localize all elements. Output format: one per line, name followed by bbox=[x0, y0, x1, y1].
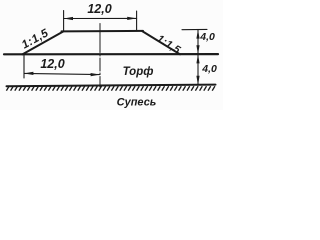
top dimension line bbox=[64, 17, 137, 19]
arrow right of top dimension bbox=[127, 17, 136, 20]
hatch ground surface line bbox=[7, 85, 216, 87]
arrow up of lower 4,0 dimension bbox=[196, 54, 199, 63]
svg-text:12,0: 12,0 bbox=[40, 57, 64, 71]
svg-text:1:1,5: 1:1,5 bbox=[155, 33, 183, 57]
svg-text:Торф: Торф bbox=[123, 66, 154, 78]
bottom dimension line bbox=[24, 73, 100, 74]
arrow left of bottom dimension bbox=[24, 72, 33, 75]
arrow right of bottom dimension bbox=[91, 73, 100, 76]
top dim extension line left bbox=[63, 11, 65, 32]
svg-text:4,0: 4,0 bbox=[201, 63, 217, 75]
right upper vertical dimension line bbox=[197, 30, 199, 55]
centerline axis bbox=[99, 24, 101, 88]
arrow down of upper 4,0 dimension bbox=[196, 45, 199, 54]
svg-text:Супесь: Супесь bbox=[117, 97, 157, 109]
arrow down of lower 4,0 dimension bbox=[196, 76, 199, 85]
top dim extension line right bbox=[136, 11, 138, 31]
svg-text:12,0: 12,0 bbox=[87, 2, 111, 16]
arrow left of top dimension bbox=[64, 17, 73, 20]
left slope line bbox=[22, 31, 63, 54]
hatch strokes bbox=[6, 86, 215, 91]
right slope line bbox=[142, 31, 180, 54]
svg-text:4,0: 4,0 bbox=[199, 31, 215, 43]
bottom dim extension line bbox=[23, 55, 25, 78]
arrow up of upper 4,0 dimension bbox=[196, 30, 199, 39]
right lower vertical dimension line bbox=[197, 54, 199, 85]
right upper extension line at crest level bbox=[182, 28, 207, 30]
embankment crest line bbox=[62, 30, 144, 33]
ground line bbox=[4, 53, 218, 55]
